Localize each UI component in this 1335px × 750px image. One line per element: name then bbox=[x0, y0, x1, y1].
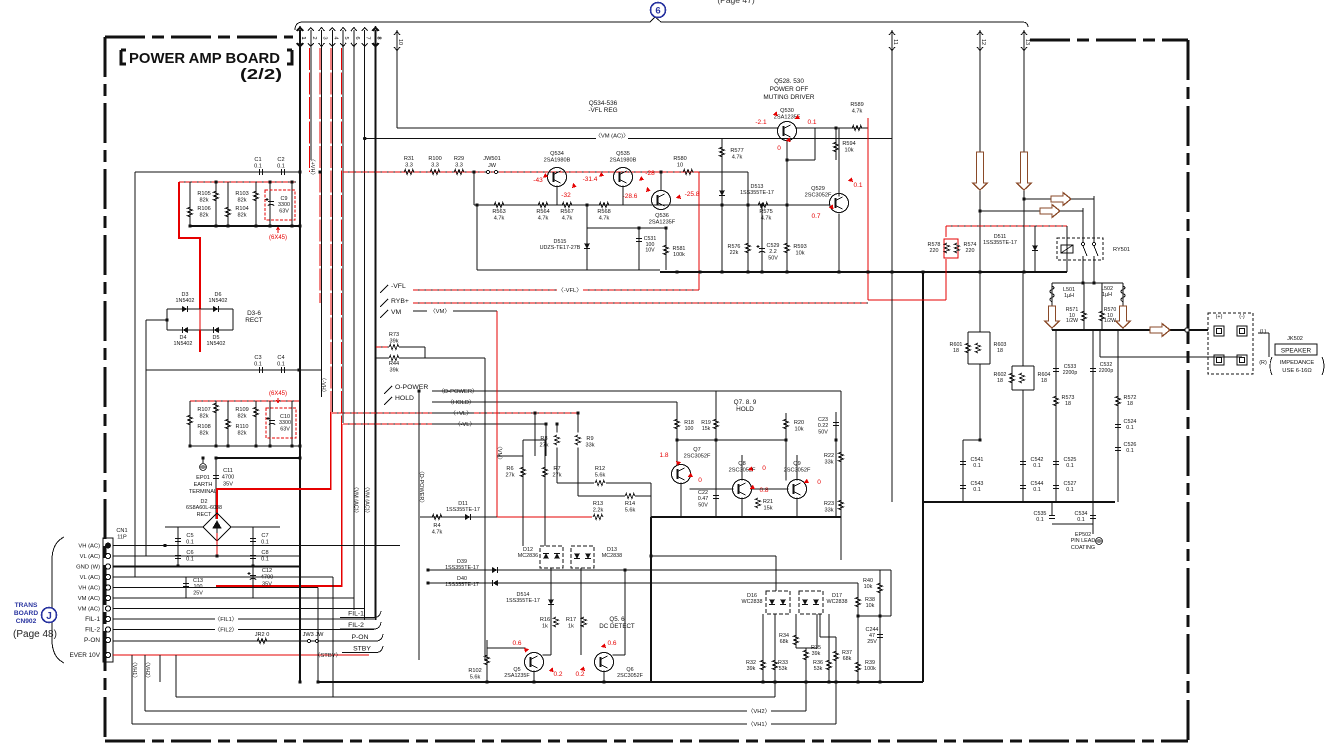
svg-text:R578: R578 bbox=[928, 242, 941, 248]
svg-text:82k: 82k bbox=[199, 413, 208, 419]
svg-text:R603: R603 bbox=[994, 342, 1007, 348]
svg-text:1N5402: 1N5402 bbox=[176, 298, 195, 304]
svg-text:1N5402: 1N5402 bbox=[174, 341, 193, 347]
svg-text:(R): (R) bbox=[1259, 360, 1267, 366]
svg-text:EP502: EP502 bbox=[1075, 532, 1091, 538]
svg-text:18: 18 bbox=[1041, 378, 1047, 384]
svg-text:(Page 47): (Page 47) bbox=[717, 0, 754, 5]
svg-text:-VFL: -VFL bbox=[391, 283, 406, 290]
svg-text:4.7k: 4.7k bbox=[494, 215, 505, 221]
svg-text:2SA1235F: 2SA1235F bbox=[649, 219, 676, 225]
svg-text:-25.8: -25.8 bbox=[685, 191, 700, 198]
svg-text:D515: D515 bbox=[554, 239, 567, 245]
svg-text:POWER AMP BOARD: POWER AMP BOARD bbox=[129, 50, 280, 67]
svg-text:0.1: 0.1 bbox=[277, 163, 285, 169]
svg-text:0.1: 0.1 bbox=[186, 556, 194, 562]
svg-text:O-POWER: O-POWER bbox=[395, 384, 428, 391]
svg-text:Q5: Q5 bbox=[513, 667, 520, 673]
svg-text:Q528. 530: Q528. 530 bbox=[774, 78, 804, 85]
svg-text:0: 0 bbox=[777, 145, 781, 152]
svg-text:1µH: 1µH bbox=[1102, 292, 1112, 298]
svg-text:L501: L501 bbox=[1063, 287, 1075, 293]
svg-text:RYB+: RYB+ bbox=[391, 298, 409, 305]
svg-text:〈VH1〉: 〈VH1〉 bbox=[131, 659, 138, 681]
svg-text:R44: R44 bbox=[389, 361, 399, 367]
svg-text:10k: 10k bbox=[844, 147, 853, 153]
svg-text:82k: 82k bbox=[237, 212, 246, 218]
svg-text:C11: C11 bbox=[223, 468, 233, 474]
svg-text:R602: R602 bbox=[994, 372, 1007, 378]
svg-text:3300: 3300 bbox=[279, 420, 291, 426]
svg-text:2200p: 2200p bbox=[1063, 370, 1078, 376]
svg-text:0: 0 bbox=[762, 465, 766, 472]
svg-text:D511: D511 bbox=[994, 234, 1007, 240]
svg-text:4.7k: 4.7k bbox=[732, 154, 743, 160]
svg-text:39k: 39k bbox=[812, 651, 821, 657]
svg-text:-32: -32 bbox=[561, 192, 571, 199]
svg-text:〈-VL〉: 〈-VL〉 bbox=[455, 421, 476, 428]
svg-text:0.1: 0.1 bbox=[186, 539, 194, 545]
svg-text:VM (AC): VM (AC) bbox=[78, 607, 100, 613]
svg-text:R107: R107 bbox=[197, 407, 210, 413]
svg-text:82k: 82k bbox=[199, 197, 208, 203]
svg-text:Q534: Q534 bbox=[550, 151, 564, 157]
svg-text:10: 10 bbox=[397, 39, 403, 45]
svg-text:4: 4 bbox=[332, 36, 338, 39]
svg-text:2SA1980B: 2SA1980B bbox=[610, 157, 637, 163]
svg-text:C2: C2 bbox=[277, 157, 284, 163]
svg-text:1N5402: 1N5402 bbox=[209, 298, 228, 304]
svg-text:〈STBY〉: 〈STBY〉 bbox=[315, 652, 342, 659]
svg-text:50V: 50V bbox=[818, 429, 828, 435]
svg-text:TRANS: TRANS bbox=[15, 602, 38, 609]
svg-text:C1: C1 bbox=[254, 157, 261, 163]
svg-text:〈VM〉: 〈VM〉 bbox=[430, 308, 450, 315]
svg-text:FIL-2: FIL-2 bbox=[348, 622, 364, 629]
svg-text:82k: 82k bbox=[237, 430, 246, 436]
svg-text:D12: D12 bbox=[523, 547, 533, 553]
svg-text:R573: R573 bbox=[1062, 395, 1075, 401]
svg-text:D4: D4 bbox=[180, 335, 187, 341]
svg-text:Q530: Q530 bbox=[780, 108, 794, 114]
svg-text:0.1: 0.1 bbox=[853, 182, 862, 189]
svg-text:0.22: 0.22 bbox=[818, 423, 829, 429]
svg-text:VH (AC): VH (AC) bbox=[78, 544, 100, 550]
svg-text:FIL-2: FIL-2 bbox=[85, 627, 100, 634]
svg-text:POWER OFF: POWER OFF bbox=[770, 86, 809, 93]
svg-text:JW3 JW: JW3 JW bbox=[303, 632, 325, 638]
svg-text:C22: C22 bbox=[698, 490, 708, 496]
svg-text:0: 0 bbox=[698, 477, 702, 484]
svg-text:R32: R32 bbox=[746, 660, 756, 666]
svg-text:4.7k: 4.7k bbox=[852, 108, 863, 114]
svg-text:R564: R564 bbox=[536, 209, 549, 215]
svg-text:C544: C544 bbox=[1031, 481, 1044, 487]
svg-text:SPEAKER: SPEAKER bbox=[1281, 348, 1312, 355]
svg-text:(6X45): (6X45) bbox=[269, 391, 287, 397]
svg-text:VM (AC): VM (AC) bbox=[78, 596, 100, 602]
svg-text:COATING: COATING bbox=[1071, 545, 1095, 551]
svg-text:R9: R9 bbox=[586, 436, 593, 442]
svg-text:R12: R12 bbox=[595, 466, 605, 472]
svg-text:-2.1: -2.1 bbox=[755, 119, 767, 126]
svg-text:0.1: 0.1 bbox=[1066, 463, 1074, 469]
svg-text:50V: 50V bbox=[698, 502, 708, 508]
svg-text:R604: R604 bbox=[1038, 372, 1051, 378]
svg-text:R13: R13 bbox=[593, 501, 603, 507]
svg-text:3.3: 3.3 bbox=[431, 162, 439, 168]
svg-text:0.2: 0.2 bbox=[575, 671, 584, 678]
svg-text:WC2838: WC2838 bbox=[742, 599, 763, 605]
svg-text:2.2: 2.2 bbox=[769, 249, 777, 255]
svg-text:13: 13 bbox=[1024, 39, 1030, 45]
svg-text:5.6k: 5.6k bbox=[470, 674, 481, 680]
svg-text:RY501: RY501 bbox=[1113, 247, 1130, 253]
svg-text:63V: 63V bbox=[280, 426, 290, 432]
svg-text:3300: 3300 bbox=[278, 202, 290, 208]
svg-text:(L): (L) bbox=[1260, 329, 1267, 335]
svg-text:1k: 1k bbox=[568, 623, 574, 629]
svg-text:10k: 10k bbox=[866, 603, 875, 609]
svg-text:C244: C244 bbox=[866, 627, 879, 633]
svg-text:10k: 10k bbox=[864, 584, 873, 590]
svg-text:RECT: RECT bbox=[197, 512, 212, 518]
svg-text:TERMINAL: TERMINAL bbox=[189, 489, 217, 495]
svg-text:82k: 82k bbox=[199, 430, 208, 436]
svg-text:R29: R29 bbox=[454, 156, 464, 162]
svg-text:25V: 25V bbox=[193, 590, 203, 596]
svg-text:0.1: 0.1 bbox=[277, 361, 285, 367]
svg-text:25V: 25V bbox=[867, 639, 877, 645]
svg-text:18: 18 bbox=[997, 348, 1003, 354]
svg-text:R580: R580 bbox=[673, 156, 686, 162]
svg-text:0.47: 0.47 bbox=[698, 496, 709, 502]
svg-text:C541: C541 bbox=[971, 457, 984, 463]
svg-text:18: 18 bbox=[953, 348, 959, 354]
svg-text:1.8: 1.8 bbox=[659, 452, 668, 459]
svg-text:〈VH2〉: 〈VH2〉 bbox=[748, 708, 771, 715]
svg-text:R14: R14 bbox=[625, 501, 635, 507]
svg-text:0.6: 0.6 bbox=[607, 640, 616, 647]
svg-text:HOLD: HOLD bbox=[736, 406, 754, 413]
svg-text:0.1: 0.1 bbox=[1077, 517, 1085, 523]
svg-text:R593: R593 bbox=[793, 244, 806, 250]
svg-text:VL (AC): VL (AC) bbox=[80, 575, 100, 581]
svg-text:5.6k: 5.6k bbox=[595, 472, 606, 478]
svg-text:15k: 15k bbox=[763, 505, 772, 511]
svg-text:27k: 27k bbox=[505, 472, 514, 478]
svg-text:〈+VH〉: 〈+VH〉 bbox=[309, 156, 316, 178]
svg-text:Q535: Q535 bbox=[616, 151, 630, 157]
svg-text:68k: 68k bbox=[843, 656, 852, 662]
svg-text:11: 11 bbox=[892, 39, 898, 45]
svg-text:1SS355TE-17: 1SS355TE-17 bbox=[740, 190, 774, 196]
svg-text:C525: C525 bbox=[1064, 457, 1077, 463]
svg-text:R17: R17 bbox=[566, 617, 576, 623]
svg-text:(+): (+) bbox=[1216, 314, 1223, 320]
svg-text:P-ON: P-ON bbox=[352, 634, 369, 641]
svg-text:〈VM (AC)〉: 〈VM (AC)〉 bbox=[364, 484, 371, 516]
svg-text:〈FIL2〉: 〈FIL2〉 bbox=[214, 627, 237, 634]
svg-text:Q7: Q7 bbox=[693, 447, 700, 453]
svg-text:12: 12 bbox=[980, 39, 986, 45]
svg-text:220: 220 bbox=[930, 248, 939, 254]
svg-text:JK502: JK502 bbox=[1287, 336, 1303, 342]
svg-text:STBY: STBY bbox=[353, 646, 371, 653]
svg-text:0.1: 0.1 bbox=[1033, 463, 1041, 469]
svg-text:R100: R100 bbox=[428, 156, 441, 162]
svg-text:R39: R39 bbox=[865, 660, 875, 666]
svg-text:D40: D40 bbox=[457, 576, 467, 582]
svg-text:R73: R73 bbox=[389, 332, 399, 338]
svg-text:0.1: 0.1 bbox=[1126, 448, 1134, 454]
svg-text:R567: R567 bbox=[560, 209, 573, 215]
svg-text:C13: C13 bbox=[193, 578, 203, 584]
svg-text:D17: D17 bbox=[832, 593, 842, 599]
svg-text:C526: C526 bbox=[1124, 442, 1137, 448]
svg-text:1N5402: 1N5402 bbox=[207, 341, 226, 347]
svg-text:R31: R31 bbox=[404, 156, 414, 162]
svg-text:3.3: 3.3 bbox=[455, 162, 463, 168]
svg-text:PIN LEAD: PIN LEAD bbox=[1071, 538, 1096, 544]
svg-text:R16: R16 bbox=[540, 617, 550, 623]
svg-text:C5: C5 bbox=[186, 533, 193, 539]
svg-text:FIL-1: FIL-1 bbox=[85, 616, 100, 623]
svg-text:2SA1235F: 2SA1235F bbox=[504, 673, 530, 679]
svg-text:4.7k: 4.7k bbox=[562, 215, 573, 221]
svg-text:-28: -28 bbox=[645, 170, 655, 177]
svg-text:0.6: 0.6 bbox=[512, 640, 521, 647]
svg-text:R23: R23 bbox=[824, 501, 834, 507]
svg-text:3.3: 3.3 bbox=[405, 162, 413, 168]
svg-text:VM: VM bbox=[391, 309, 402, 316]
svg-text:10V: 10V bbox=[645, 247, 655, 253]
svg-text:82k: 82k bbox=[199, 212, 208, 218]
svg-text:R108: R108 bbox=[197, 424, 210, 430]
svg-text:C534: C534 bbox=[1075, 511, 1088, 517]
svg-text:1SS355TE-17: 1SS355TE-17 bbox=[506, 598, 540, 604]
svg-text:R4: R4 bbox=[433, 523, 440, 529]
svg-text:CN902: CN902 bbox=[16, 618, 37, 625]
svg-text:D3-6: D3-6 bbox=[247, 310, 261, 317]
svg-text:〈VH1〉: 〈VH1〉 bbox=[748, 721, 771, 728]
svg-text:-43: -43 bbox=[533, 177, 543, 184]
svg-text:R576: R576 bbox=[728, 244, 741, 250]
svg-text:R568: R568 bbox=[597, 209, 610, 215]
svg-text:R581: R581 bbox=[673, 246, 686, 252]
svg-text:(6X45): (6X45) bbox=[269, 235, 287, 241]
svg-text:MC2836: MC2836 bbox=[518, 553, 538, 559]
svg-text:MC2838: MC2838 bbox=[602, 553, 622, 559]
svg-text:3: 3 bbox=[322, 36, 328, 39]
svg-text:D2: D2 bbox=[201, 499, 208, 505]
svg-text:1/2W: 1/2W bbox=[1104, 318, 1116, 324]
svg-text:5: 5 bbox=[343, 36, 349, 39]
svg-text:Q536: Q536 bbox=[655, 213, 669, 219]
svg-text:C535: C535 bbox=[1034, 511, 1047, 517]
svg-text:R20: R20 bbox=[794, 420, 804, 426]
svg-text:R40: R40 bbox=[863, 578, 873, 584]
svg-text:EVER 10V: EVER 10V bbox=[69, 652, 100, 659]
svg-text:Q6: Q6 bbox=[626, 667, 633, 673]
svg-text:Q529: Q529 bbox=[811, 186, 825, 192]
svg-text:63V: 63V bbox=[279, 208, 289, 214]
svg-text:2: 2 bbox=[311, 36, 317, 39]
svg-text:0.1: 0.1 bbox=[973, 463, 981, 469]
svg-text:0.1: 0.1 bbox=[973, 487, 981, 493]
svg-text:R33: R33 bbox=[778, 660, 788, 666]
svg-text:0.1: 0.1 bbox=[1036, 517, 1044, 523]
svg-text:4700: 4700 bbox=[222, 474, 234, 480]
svg-text:〈-VH〉: 〈-VH〉 bbox=[320, 375, 327, 395]
svg-text:BOARD: BOARD bbox=[14, 610, 38, 617]
svg-text:R572: R572 bbox=[1124, 395, 1137, 401]
svg-text:R575: R575 bbox=[759, 209, 772, 215]
svg-text:50V: 50V bbox=[768, 255, 778, 261]
svg-text:-28.6: -28.6 bbox=[623, 193, 638, 200]
svg-text:18: 18 bbox=[1065, 401, 1071, 407]
svg-text:D6: D6 bbox=[215, 292, 222, 298]
svg-text:33k: 33k bbox=[585, 442, 594, 448]
svg-text:JW501: JW501 bbox=[483, 156, 500, 162]
svg-text:15k: 15k bbox=[702, 426, 711, 432]
svg-text:0.1: 0.1 bbox=[254, 163, 262, 169]
svg-text:-VFL REG: -VFL REG bbox=[588, 107, 617, 114]
svg-text:82k: 82k bbox=[237, 197, 246, 203]
svg-text:2SC3052F: 2SC3052F bbox=[617, 673, 643, 679]
svg-text:10k: 10k bbox=[794, 426, 803, 432]
svg-text:C6: C6 bbox=[186, 550, 193, 556]
svg-text:D11: D11 bbox=[458, 501, 468, 507]
svg-text:D3: D3 bbox=[182, 292, 189, 298]
svg-text:1SS355TE-17: 1SS355TE-17 bbox=[446, 507, 480, 513]
svg-text:10k: 10k bbox=[795, 250, 804, 256]
svg-text:68k: 68k bbox=[780, 639, 789, 645]
svg-text:R563: R563 bbox=[492, 209, 505, 215]
svg-text:(Page 48): (Page 48) bbox=[13, 629, 57, 640]
svg-text:D5: D5 bbox=[213, 335, 220, 341]
svg-text:RECT: RECT bbox=[245, 317, 262, 324]
svg-text:R38: R38 bbox=[865, 597, 875, 603]
svg-text:C542: C542 bbox=[1031, 457, 1044, 463]
svg-text:4.7k: 4.7k bbox=[432, 529, 443, 535]
svg-text:MUTING DRIVER: MUTING DRIVER bbox=[763, 94, 815, 101]
svg-text:WC2838: WC2838 bbox=[827, 599, 848, 605]
svg-text:DC DETECT: DC DETECT bbox=[599, 623, 635, 630]
svg-text:R105: R105 bbox=[197, 191, 210, 197]
svg-text:J: J bbox=[46, 611, 52, 622]
svg-text:53k: 53k bbox=[779, 666, 788, 672]
svg-text:EARTH: EARTH bbox=[194, 482, 213, 488]
svg-text:33k: 33k bbox=[824, 507, 833, 513]
svg-text:Q7. 8. 9: Q7. 8. 9 bbox=[734, 399, 757, 406]
svg-text:33k: 33k bbox=[824, 459, 833, 465]
svg-text:2200p: 2200p bbox=[1099, 368, 1114, 374]
svg-text:1: 1 bbox=[300, 36, 306, 39]
svg-text:(-): (-) bbox=[1239, 314, 1245, 320]
svg-text:R104: R104 bbox=[235, 206, 248, 212]
svg-text:100k: 100k bbox=[673, 252, 685, 258]
svg-text:C8: C8 bbox=[261, 550, 268, 556]
svg-text:〈VH2〉: 〈VH2〉 bbox=[144, 659, 151, 681]
svg-text:0: 0 bbox=[817, 479, 821, 486]
svg-text:D39: D39 bbox=[457, 559, 467, 565]
svg-text:53k: 53k bbox=[814, 666, 823, 672]
svg-text:2SC3052F: 2SC3052F bbox=[684, 453, 711, 459]
svg-text:D16: D16 bbox=[747, 593, 757, 599]
svg-text:FIL-1: FIL-1 bbox=[348, 611, 364, 618]
svg-text:〈-VFL〉: 〈-VFL〉 bbox=[558, 287, 582, 294]
svg-text:R589: R589 bbox=[850, 102, 863, 108]
svg-text:1SS355TE-17: 1SS355TE-17 bbox=[983, 240, 1017, 246]
svg-text:100: 100 bbox=[685, 426, 694, 432]
svg-text:6: 6 bbox=[354, 36, 360, 39]
svg-text:R106: R106 bbox=[197, 206, 210, 212]
svg-text:GND (W): GND (W) bbox=[76, 565, 100, 571]
svg-text:2SC3052F: 2SC3052F bbox=[805, 192, 832, 198]
svg-text:Q534-536: Q534-536 bbox=[589, 100, 618, 107]
svg-text:〈VM〉: 〈VM〉 bbox=[496, 443, 503, 462]
svg-text:IMPEDANCE: IMPEDANCE bbox=[1280, 360, 1315, 366]
svg-text:82k: 82k bbox=[237, 413, 246, 419]
svg-text:R110: R110 bbox=[236, 424, 249, 430]
svg-text:EP01: EP01 bbox=[196, 475, 210, 481]
svg-text:6S8A60L-6088: 6S8A60L-6088 bbox=[186, 505, 222, 511]
svg-text:1µH: 1µH bbox=[1064, 293, 1074, 299]
svg-text:4.7k: 4.7k bbox=[599, 215, 610, 221]
svg-text:0.1: 0.1 bbox=[1126, 425, 1134, 431]
svg-text:〈D-POWER〉: 〈D-POWER〉 bbox=[438, 388, 478, 395]
svg-text:C10: C10 bbox=[280, 414, 290, 420]
svg-text:R103: R103 bbox=[235, 191, 248, 197]
svg-text:27k: 27k bbox=[539, 442, 548, 448]
svg-text:10: 10 bbox=[677, 162, 683, 168]
svg-text:D13: D13 bbox=[607, 547, 617, 553]
svg-text:0.1: 0.1 bbox=[1066, 487, 1074, 493]
svg-text:R109: R109 bbox=[235, 407, 248, 413]
svg-text:0.1: 0.1 bbox=[807, 119, 816, 126]
svg-text:Q5. 6: Q5. 6 bbox=[609, 616, 625, 623]
svg-text:P-ON: P-ON bbox=[84, 637, 100, 644]
svg-text:C9: C9 bbox=[281, 196, 288, 202]
svg-text:〈+VL〉: 〈+VL〉 bbox=[450, 410, 472, 417]
svg-text:35V: 35V bbox=[262, 581, 272, 587]
svg-text:R8: R8 bbox=[540, 436, 547, 442]
svg-text:R36: R36 bbox=[813, 660, 823, 666]
svg-text:39k: 39k bbox=[747, 666, 756, 672]
svg-text:VH (AC): VH (AC) bbox=[78, 586, 100, 592]
svg-text:VL (AC): VL (AC) bbox=[80, 554, 100, 560]
svg-text:39k: 39k bbox=[389, 367, 398, 373]
svg-text:1/2W: 1/2W bbox=[1066, 318, 1078, 324]
svg-text:〈VM (AC)〉: 〈VM (AC)〉 bbox=[595, 133, 629, 140]
svg-text:2SA1980B: 2SA1980B bbox=[544, 157, 571, 163]
svg-text:7: 7 bbox=[365, 36, 371, 39]
svg-text:R577: R577 bbox=[730, 148, 743, 154]
svg-text:R6: R6 bbox=[506, 466, 513, 472]
svg-text:C543: C543 bbox=[971, 481, 984, 487]
svg-text:22k: 22k bbox=[730, 250, 739, 256]
svg-text:C7: C7 bbox=[261, 533, 268, 539]
svg-text:R21: R21 bbox=[763, 499, 773, 505]
svg-text:0.1: 0.1 bbox=[1033, 487, 1041, 493]
svg-text:18: 18 bbox=[997, 378, 1003, 384]
svg-text:8: 8 bbox=[376, 36, 382, 39]
svg-text:D513: D513 bbox=[751, 184, 764, 190]
svg-text:5.6k: 5.6k bbox=[625, 507, 636, 513]
svg-text:CN1: CN1 bbox=[116, 528, 127, 534]
svg-text:R37: R37 bbox=[842, 650, 852, 656]
